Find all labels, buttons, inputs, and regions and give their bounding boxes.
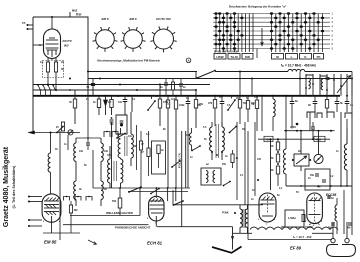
svg-text:10n: 10n: [118, 101, 123, 104]
inductor L6 small: [191, 128, 193, 133]
svg-text:A: A: [188, 59, 190, 63]
wire net K horizontal 186: [286, 185, 352, 187]
terminal TA input: [27, 24, 33, 26]
svg-text:EF 89: EF 89: [290, 246, 302, 251]
wire ground tie: [233, 232, 253, 234]
svg-text:10k: 10k: [79, 150, 84, 153]
wire pot leads: [300, 131, 302, 154]
svg-text:ECH 81: ECH 81: [147, 241, 163, 246]
svg-text:EM 8: EM 8: [129, 17, 136, 21]
capacitor C10: [346, 96, 348, 102]
ground symbol chevron: [212, 247, 242, 253]
svg-text:470S: 470S: [290, 126, 296, 129]
svg-text:fₘ = 10,7 MHz · 468 kHz: fₘ = 10,7 MHz · 468 kHz: [281, 64, 316, 68]
svg-text:Abstimmanzeige, Maßstäbe bei F: Abstimmanzeige, Maßstäbe bei FM-Betrieb: [97, 59, 160, 63]
arrow on rail B right: [322, 77, 331, 80]
tube U1 triode envelope: [44, 29, 61, 59]
capacitor C1 10n: [124, 96, 126, 100]
resistor R8 470k: [159, 85, 161, 100]
svg-text:TA·M: TA·M: [230, 55, 238, 59]
capacitor C15 4n: [328, 195, 330, 199]
resistor R14: [326, 96, 328, 100]
tube V3 internals: [261, 199, 275, 201]
wire chassis line 2: [63, 224, 149, 226]
contact pins P1-P4: [38, 85, 40, 90]
variable capacitor arrow in tuner: [337, 75, 351, 93]
wire chassis line 1: [70, 215, 140, 217]
tube V3 EL84 envelope: [259, 193, 276, 222]
T2 label and dot: [234, 212, 236, 214]
IF coil assembly A primary: [75, 138, 77, 143]
wire rail net A top: [88, 71, 197, 73]
label vertical FOL text: [178, 153, 182, 168]
tube socket view SK2: [121, 27, 146, 52]
svg-text:L: L: [291, 55, 293, 59]
tube V2 internals: [150, 200, 164, 202]
IFT4 junction dots: [211, 151, 213, 153]
misc value labels: [55, 95, 339, 178]
svg-text:FOL.AU 7A: FOL.AU 7A: [178, 153, 182, 168]
IF transformer IFT3 lower primary: [108, 159, 110, 183]
wire verticals x245 x248: [244, 122, 246, 205]
svg-text:760: 760: [328, 227, 333, 230]
wire L3 to tube V1: [50, 172, 52, 193]
resistor R1 cathode: [47, 58, 49, 62]
svg-text:470: 470: [208, 102, 213, 105]
labels IFT4 region: [186, 126, 245, 166]
switch S4: [57, 127, 63, 133]
label subtitle Teil des Schaltbildes (rotated): [12, 165, 16, 209]
label boxes on net G2: [264, 136, 273, 141]
labels near EL84: [251, 187, 299, 201]
IF transformer IFT4 primary: [211, 122, 213, 127]
diode flag D1: [105, 96, 107, 100]
switch S8: [192, 146, 200, 151]
capacitor C0 group x166: [165, 79, 167, 84]
wire drop x341: [340, 112, 342, 186]
switch S12 right of shield box: [172, 161, 180, 167]
capacitor C0b group x181: [180, 79, 182, 85]
svg-text:4n7: 4n7: [171, 98, 176, 101]
trimmer symbol on net H: [68, 130, 73, 135]
tube U1 internal electrodes: [46, 39, 58, 41]
svg-text:DC/TC W2: DC/TC W2: [156, 17, 171, 21]
tube V4 ECC85 envelope: [307, 193, 323, 224]
resistor R20 1k: [232, 150, 234, 154]
svg-text:M02: M02: [72, 9, 78, 13]
IFT4 core dashed: [215, 124, 217, 158]
svg-text:500: 500: [112, 200, 117, 203]
tube V1 EM85 envelope: [42, 194, 61, 222]
svg-text:Ph: Ph: [317, 55, 321, 59]
wire net G2 lower bus: [258, 138, 330, 140]
svg-text:470: 470: [254, 96, 259, 99]
wire drop x347 mid: [346, 119, 348, 144]
box UKW unit label: [285, 210, 304, 227]
svg-text:W2: W2: [64, 44, 69, 48]
wire V1 bottom lead: [51, 222, 53, 233]
svg-text:WELLENSCHALTER: WELLENSCHALTER: [106, 211, 133, 215]
tuner coil B: [321, 79, 323, 90]
wire vertical x286: [285, 96, 287, 131]
resistor R11 500: [239, 72, 241, 100]
wire rail net B: [88, 78, 352, 80]
capacitor C9 5k: [336, 96, 338, 102]
wire R1 R2 leads to rails: [47, 72, 49, 85]
IF coil assembly B secondary lower: [101, 181, 103, 199]
wire vertical x60: [59, 131, 61, 240]
capacitor C19 470S: [312, 122, 314, 127]
svg-text:25k: 25k: [222, 163, 227, 166]
symbol circled A: [186, 58, 191, 63]
shield box with resistor R19: [152, 141, 166, 174]
wire drop x262: [261, 96, 263, 131]
switch S11 below loop: [117, 134, 125, 139]
IF transformer IFT2 upper primary: [120, 128, 122, 134]
wire vertical x255: [254, 122, 256, 196]
wire vertical x140: [139, 188, 141, 216]
wire tuner box edges: [299, 72, 301, 96]
tube socket view SK1: [93, 27, 118, 52]
svg-text:Graetz 4080, Musikgerät: Graetz 4080, Musikgerät: [3, 146, 10, 227]
label title Graetz 4080 Musikgeraet (rotated): [3, 146, 10, 227]
switch S7 right of V2: [174, 201, 184, 205]
tuner coil A: [309, 78, 311, 89]
junction dots right bus: [285, 130, 287, 132]
wire vertical x310: [309, 112, 311, 131]
output transformer T2 secondary: [247, 205, 249, 209]
wire table drop x257: [256, 49, 258, 59]
resistor R13 1M: [256, 96, 258, 100]
switch contact bank above V1: [64, 197, 70, 201]
wire net to ECH81 grid: [101, 159, 108, 161]
wire vertical x237: [236, 122, 238, 200]
wire net J mid horizontal 188: [93, 187, 190, 189]
junction dot x258: [257, 179, 259, 181]
component box right: [305, 169, 330, 190]
svg-text:40k: 40k: [186, 134, 191, 137]
svg-text:fₒ = 10,7 · 452: fₒ = 10,7 · 452: [293, 235, 312, 239]
resistor R2 screen: [55, 58, 57, 62]
IF coil assembly B primary: [100, 138, 102, 143]
wire net G AVC right bus: [284, 130, 335, 132]
inductor L1 antenna coil on rail A: [288, 69, 305, 71]
svg-text:(1. Teil des Schaltbildes): (1. Teil des Schaltbildes): [12, 165, 16, 209]
switch contact table horizontal grid: [213, 14, 330, 49]
shielded box transformer: [201, 168, 221, 185]
junction dots on rails: [47, 84, 49, 86]
svg-text:TA: TA: [22, 21, 26, 25]
svg-text:M2: M2: [74, 209, 78, 212]
inductor L2 drop: [272, 96, 274, 99]
resistor R0 group x173: [172, 79, 174, 83]
IF coil assembly A secondary lower: [74, 181, 76, 199]
capacitor C16 760: [331, 222, 335, 224]
svg-text:EM 85: EM 85: [44, 240, 57, 245]
node stub M02: [69, 12, 71, 17]
IFT2 upper core lines: [124, 136, 126, 156]
resistor chain R22: [276, 154, 279, 162]
resistor chain R21: [277, 139, 279, 142]
switch S3: [228, 100, 235, 110]
wire trimmer leads: [318, 131, 320, 155]
mains plug prong 1: [332, 222, 334, 238]
inductor L3 oscillator coil: [48, 153, 50, 172]
capacitor C6: [221, 96, 223, 102]
IFT3 lower core lines: [113, 161, 115, 181]
wire drop x132 from rail: [131, 96, 133, 112]
wire vertical x88 box to net H: [87, 96, 89, 138]
wire bottom return line: [248, 239, 332, 241]
svg-text:10n: 10n: [128, 135, 133, 138]
wire plug tie: [312, 232, 333, 234]
svg-text:4M: 4M: [347, 227, 350, 230]
arrow bottom left: [88, 240, 97, 245]
wire vertical x112 lower: [111, 135, 113, 188]
wire net heater 226 line: [157, 226, 233, 228]
svg-text:FUNK: FUNK: [222, 212, 229, 215]
tuner internal components: [305, 74, 307, 96]
power transformer verticals: [343, 190, 345, 234]
wire vertical x136.6: [136, 125, 138, 170]
pushbutton label boxes row: [214, 54, 226, 60]
resistor R3: [74, 90, 76, 99]
svg-text:PHONOBUCHSE ANSICHT: PHONOBUCHSE ANSICHT: [115, 225, 150, 229]
dial cord wavy line: [250, 227, 338, 229]
wire rail net C: [33, 84, 210, 86]
resistor R18 47: [148, 131, 150, 148]
wire drop to L3: [50, 133, 52, 154]
svg-text:EM 8: EM 8: [101, 17, 108, 21]
resistor chain R23: [276, 166, 279, 174]
wire vertical x68 partial: [67, 135, 69, 150]
resistor R24 on box edge: [302, 215, 305, 222]
inductor L4: [285, 131, 287, 149]
wire net B+ to output transformer: [172, 190, 174, 205]
junction dots net H: [50, 132, 52, 134]
svg-text:VM: VM: [281, 227, 285, 229]
wire vertical x93: [92, 150, 94, 188]
wire top-left box frame: [33, 17, 88, 96]
switch S6: [151, 189, 159, 194]
wire vertical x317 322: [316, 118, 318, 129]
wire net H horizontal: [30, 132, 80, 134]
capacitor C14 near V3: [267, 193, 269, 198]
svg-text:DC/TC: DC/TC: [63, 39, 73, 43]
wire drops from rail D left: [40, 90, 42, 96]
svg-text:Drucktasten: Belegung der Kont: Drucktasten: Belegung der Kontakte "a": [229, 5, 287, 9]
wire right edge drop: [351, 79, 353, 187]
svg-text:1M: 1M: [251, 102, 254, 105]
svg-text:UKW: UKW: [216, 55, 223, 59]
capacitor C12 x112: [111, 117, 113, 119]
resistor R12 5k: [247, 96, 249, 101]
component hooks right band: [307, 112, 315, 118]
capacitor C5: [187, 96, 189, 102]
wire left main vertical bus: [32, 17, 34, 133]
wire rail net E thick AVC bus: [33, 95, 340, 97]
output transformer T2 primary: [239, 205, 241, 209]
capacitor C18 x93: [92, 79, 94, 84]
wire EM85 input nets: [28, 196, 42, 198]
switch S1 on rail A: [197, 71, 215, 79]
inductor L5: [346, 129, 348, 145]
arrow in table: [261, 28, 264, 46]
tube V2 ECH81 envelope: [149, 196, 164, 221]
svg-text:100k: 100k: [179, 104, 185, 107]
resistor R10 470: [214, 96, 216, 100]
IF transformer IFT2 upper secondary: [130, 112, 132, 134]
svg-text:frei: frei: [76, 13, 81, 17]
potentiometer box: [294, 154, 309, 166]
svg-text:1,5Mω: 1,5Mω: [288, 216, 297, 220]
wire rail net D: [33, 89, 196, 91]
svg-text:KW: KW: [245, 55, 250, 59]
svg-text:100: 100: [257, 158, 262, 161]
svg-text:30k: 30k: [197, 104, 202, 107]
IF transformer IFT3 lower secondary: [121, 159, 123, 183]
capacitor C17 4M: [348, 222, 352, 224]
arrow net H: [28, 131, 35, 134]
resistor R17 4M: [140, 131, 142, 141]
wire U1 plate lead: [51, 17, 53, 29]
wire right edge drop lower: [351, 186, 353, 235]
contact bracket K1: [104, 132, 110, 138]
resistor R15 right of V1: [70, 201, 72, 205]
tube V4 internals: [309, 200, 321, 202]
resistor R4 1k: [98, 96, 100, 99]
coil A B top ties: [76, 137, 101, 139]
svg-text:YXFER: YXFER: [305, 227, 313, 229]
resistor R26 x168: [167, 96, 169, 100]
svg-text:500: 500: [243, 102, 248, 105]
svg-text:50k: 50k: [310, 174, 315, 177]
wire verticals right of V2: [167, 188, 169, 201]
resistor R25 x63: [61, 122, 64, 131]
tube V1 internals: [44, 200, 59, 202]
wire drop x252: [251, 79, 253, 96]
table row numbers: [332, 12, 334, 51]
wire drop x196: [195, 72, 197, 79]
trimmer disc: [314, 154, 323, 163]
wire drop x270: [270, 139, 272, 190]
capacitor C8: [314, 96, 316, 102]
component box around R1 R2: [43, 61, 64, 78]
svg-text:0,1: 0,1: [40, 61, 44, 64]
switch S2: [148, 101, 155, 110]
table contact dots: [214, 12, 324, 50]
power transformer coil: [335, 205, 337, 221]
switch S9 top right: [230, 127, 237, 133]
switch contact table vertical grid right block: [272, 14, 323, 53]
mains plug prong 2: [346, 222, 348, 238]
resistor R5: [111, 96, 113, 100]
tube pin numbers: [43, 30, 323, 227]
svg-text:10k: 10k: [104, 150, 109, 153]
tube socket view SK3: [150, 26, 176, 52]
contact bracket K2: [112, 132, 118, 138]
switch contact table vertical grid left block: [216, 14, 253, 53]
wire V2 top lead: [155, 188, 157, 198]
mains plug body: [327, 245, 356, 257]
resistor R16 500: [119, 188, 121, 198]
switch S10: [224, 182, 231, 186]
resistor R9 100k: [175, 96, 177, 100]
IF transformer IFT4 secondary: [221, 122, 223, 127]
svg-text:W AB AM TA U KW: W AB AM TA U KW: [214, 49, 238, 53]
T2 core: [242, 209, 244, 228]
wire U1 grid lead: [33, 44, 44, 46]
capacitor C11 coil tie: [87, 138, 89, 143]
wire ground drop: [232, 227, 234, 250]
svg-text:8n: 8n: [295, 100, 298, 103]
loop sub-circuit box: [116, 115, 127, 134]
resistor R27 25k: [194, 100, 197, 109]
svg-text:47k: 47k: [107, 154, 112, 157]
switch S5: [129, 187, 141, 192]
svg-text:2M: 2M: [236, 97, 239, 100]
capacitor C7 8n: [291, 96, 293, 102]
wire drop x110 upper: [109, 146, 111, 159]
wire net J2 parallel: [128, 191, 188, 193]
